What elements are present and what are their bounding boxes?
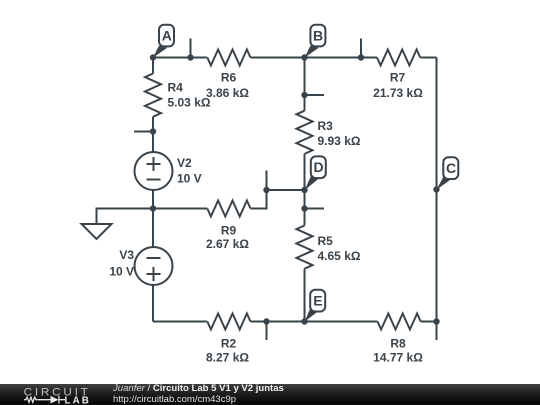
svg-text:R6: R6 bbox=[221, 71, 237, 85]
svg-text:9.93 kΩ: 9.93 kΩ bbox=[318, 134, 361, 148]
wire R9 to node D bbox=[251, 190, 305, 209]
wire R4 to V2 bbox=[152, 117, 154, 152]
voltage source V2 bbox=[135, 152, 173, 190]
svg-text:A: A bbox=[162, 27, 172, 43]
circuitlab logo bbox=[15, 384, 110, 405]
svg-text:10 V: 10 V bbox=[109, 265, 134, 279]
junction bottom right bbox=[433, 318, 439, 324]
node label E bbox=[305, 290, 326, 322]
resistor R9 bbox=[207, 201, 250, 217]
wire R3 to D bbox=[304, 154, 306, 190]
resistor R4 bbox=[145, 74, 161, 117]
wire E to R8 bbox=[305, 321, 378, 323]
resistor R8 bbox=[378, 314, 421, 330]
resistor R2 bbox=[207, 314, 250, 330]
svg-text:LAB: LAB bbox=[65, 395, 92, 405]
svg-text:R9: R9 bbox=[221, 224, 237, 238]
wire bottom-left to R2 bbox=[153, 321, 207, 323]
junction ground bbox=[150, 205, 156, 211]
svg-text:R7: R7 bbox=[390, 71, 406, 85]
wire B to R7 bbox=[305, 57, 378, 59]
wire right rail bbox=[436, 58, 438, 341]
junction left of D bbox=[263, 187, 269, 193]
svg-text:14.77 kΩ: 14.77 kΩ bbox=[373, 351, 423, 365]
junction R3 top bbox=[301, 92, 307, 98]
svg-text:C: C bbox=[446, 160, 456, 176]
junction R4 bottom bbox=[150, 128, 156, 134]
resistor R3 bbox=[297, 111, 313, 154]
node label D bbox=[305, 156, 326, 190]
label R3 bbox=[318, 119, 361, 148]
svg-text:R3: R3 bbox=[318, 119, 334, 133]
wire R8 to right rail bbox=[421, 321, 437, 323]
stub right of B bbox=[360, 39, 362, 58]
stub near A bbox=[190, 39, 192, 58]
junction node C bbox=[433, 186, 439, 192]
label V3 bbox=[109, 248, 134, 279]
wire A down to R4 bbox=[152, 58, 154, 74]
wire V3 to bottom rail bbox=[152, 285, 154, 322]
wire V2 to mid junction bbox=[152, 190, 154, 209]
svg-text:21.73 kΩ: 21.73 kΩ bbox=[373, 86, 423, 100]
wire top-left A to R6 bbox=[153, 57, 207, 59]
svg-text:D: D bbox=[313, 159, 323, 175]
junction stub A bbox=[187, 54, 193, 60]
resistor R7 bbox=[377, 50, 420, 66]
wire R6 to B bbox=[251, 57, 305, 59]
junction bottom stub bbox=[263, 318, 269, 324]
wire B down to R3 bbox=[304, 58, 306, 111]
svg-text:V2: V2 bbox=[177, 156, 192, 170]
label R9 bbox=[206, 224, 249, 252]
svg-text:3.86 kΩ: 3.86 kΩ bbox=[206, 86, 249, 100]
junction node D bbox=[301, 187, 307, 193]
resistor R6 bbox=[207, 50, 250, 66]
label R7 bbox=[373, 71, 423, 101]
stub above node by R9 bbox=[266, 171, 268, 191]
label R2 bbox=[206, 337, 249, 365]
svg-text:5.03 kΩ: 5.03 kΩ bbox=[168, 96, 211, 110]
junction node A bbox=[150, 54, 156, 60]
ground bbox=[82, 224, 112, 239]
wire R7 to right rail bbox=[420, 57, 436, 59]
svg-text:E: E bbox=[313, 293, 322, 309]
svg-text:10 V: 10 V bbox=[177, 172, 202, 186]
svg-text:4.65 kΩ: 4.65 kΩ bbox=[318, 249, 361, 263]
wire mid junction to V3 bbox=[152, 209, 154, 248]
svg-text:R4: R4 bbox=[168, 81, 184, 95]
label R5 bbox=[318, 234, 361, 263]
node label C bbox=[437, 157, 459, 190]
svg-text:R5: R5 bbox=[318, 234, 334, 248]
svg-text:R8: R8 bbox=[390, 337, 406, 351]
svg-text:2.67 kΩ: 2.67 kΩ bbox=[206, 237, 249, 251]
wire D to R5 bbox=[304, 190, 306, 226]
junction node B bbox=[301, 54, 307, 60]
voltage source V3 bbox=[135, 247, 173, 285]
wire R5 to E bbox=[304, 269, 306, 322]
node label A bbox=[153, 25, 174, 58]
resistor R5 bbox=[297, 226, 313, 269]
stub below bottom rail bbox=[266, 322, 268, 341]
wire mid to R9 bbox=[153, 208, 207, 210]
stub left of R4 bottom bbox=[134, 131, 153, 133]
node label B bbox=[305, 25, 326, 58]
wire ground branch bbox=[97, 209, 154, 225]
svg-text:V3: V3 bbox=[119, 248, 134, 262]
stub right of R3 top bbox=[305, 94, 325, 96]
label R6 bbox=[206, 71, 249, 101]
label R8 bbox=[373, 337, 423, 365]
svg-text:B: B bbox=[313, 27, 323, 43]
junction below D bbox=[301, 205, 307, 211]
svg-text:R2: R2 bbox=[221, 337, 237, 351]
label V2 bbox=[177, 156, 202, 186]
footer bar bbox=[0, 384, 540, 405]
stub right below D bbox=[305, 208, 325, 210]
label R4 bbox=[168, 81, 211, 110]
svg-text:8.27 kΩ: 8.27 kΩ bbox=[206, 351, 249, 365]
junction stub B bbox=[358, 54, 364, 60]
junction node E bbox=[301, 318, 307, 324]
wire R2 to E bbox=[251, 321, 305, 323]
